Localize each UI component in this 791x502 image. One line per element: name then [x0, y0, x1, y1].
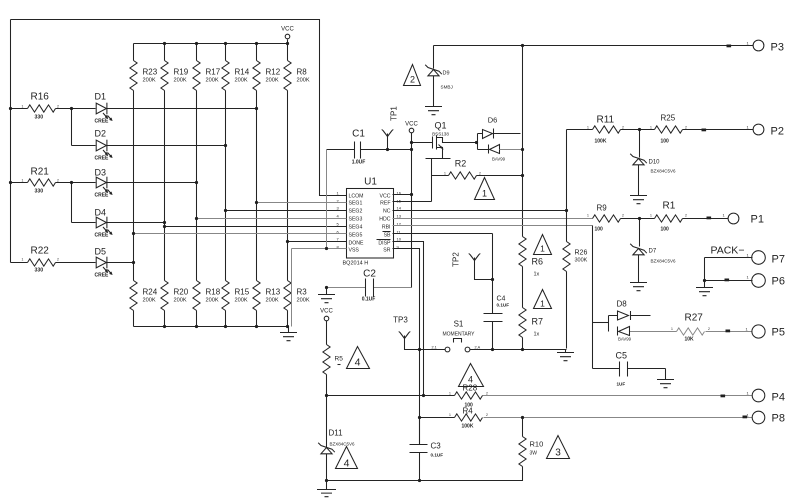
svg-text:3: 3	[337, 206, 340, 211]
svg-text:P6: P6	[772, 276, 785, 288]
svg-text:P3: P3	[771, 42, 784, 54]
svg-text:1: 1	[747, 253, 750, 258]
svg-text:R20: R20	[174, 288, 189, 297]
svg-text:7: 7	[337, 237, 340, 242]
svg-text:330: 330	[35, 189, 44, 195]
svg-text:2: 2	[410, 75, 415, 85]
svg-text:100: 100	[595, 227, 604, 233]
svg-text:R16: R16	[31, 92, 50, 103]
svg-text:LCOM: LCOM	[349, 194, 364, 200]
svg-text:HDC: HDC	[379, 217, 390, 223]
svg-text:200K: 200K	[206, 298, 219, 304]
svg-text:D3: D3	[95, 168, 107, 178]
svg-text:200K: 200K	[143, 78, 156, 84]
svg-text:1: 1	[650, 214, 652, 218]
svg-text:1: 1	[482, 189, 487, 199]
svg-text:C2: C2	[363, 269, 376, 280]
svg-text:R11: R11	[597, 115, 615, 126]
svg-text:4: 4	[344, 458, 350, 470]
svg-text:BAV99: BAV99	[618, 337, 632, 342]
svg-text:VCC: VCC	[380, 194, 391, 200]
svg-text:PACK−: PACK−	[711, 245, 745, 257]
svg-text:SEG4: SEG4	[349, 225, 363, 231]
svg-text:R2: R2	[455, 159, 467, 169]
svg-text:DONE: DONE	[349, 241, 365, 247]
svg-text:CREE: CREE	[95, 119, 110, 125]
svg-text:TP2: TP2	[452, 252, 461, 267]
svg-text:2: 2	[622, 214, 624, 218]
svg-text:13: 13	[397, 214, 402, 219]
svg-text:1: 1	[540, 299, 545, 309]
svg-text:TP1: TP1	[390, 106, 399, 121]
svg-text:R26: R26	[575, 250, 588, 257]
svg-text:D9: D9	[443, 71, 450, 77]
svg-text:BZX84C5V6: BZX84C5V6	[651, 259, 677, 264]
svg-text:R4: R4	[463, 407, 474, 416]
svg-text:200K: 200K	[174, 78, 187, 84]
svg-text:1x: 1x	[534, 272, 540, 278]
svg-text:300K: 300K	[575, 258, 588, 264]
svg-text:R7: R7	[532, 317, 544, 327]
svg-text:R21: R21	[31, 167, 50, 178]
svg-text:200K: 200K	[143, 298, 156, 304]
svg-text:C4: C4	[497, 296, 506, 303]
svg-text:R8: R8	[297, 68, 308, 77]
svg-text:200K: 200K	[174, 298, 187, 304]
svg-text:1: 1	[444, 171, 446, 175]
svg-text:SEG5: SEG5	[349, 233, 363, 239]
svg-text:10K: 10K	[685, 337, 695, 343]
svg-text:SMBJ: SMBJ	[441, 85, 453, 90]
svg-text:14: 14	[397, 206, 402, 211]
svg-text:1: 1	[671, 327, 673, 331]
svg-text:RBI: RBI	[382, 225, 391, 231]
svg-text:200K: 200K	[297, 78, 310, 84]
svg-text:2.A: 2.A	[475, 346, 481, 350]
svg-text:R12: R12	[266, 68, 281, 77]
svg-text:1: 1	[587, 214, 589, 218]
svg-text:R18: R18	[206, 288, 221, 297]
svg-text:1: 1	[449, 391, 451, 395]
svg-text:CREE: CREE	[95, 273, 110, 279]
svg-text:2: 2	[622, 125, 624, 129]
svg-text:D2: D2	[95, 129, 107, 139]
svg-text:DISP: DISP	[378, 241, 391, 247]
svg-text:1x: 1x	[534, 332, 540, 338]
svg-text:1: 1	[747, 413, 750, 418]
svg-text:0.1UF: 0.1UF	[431, 453, 444, 458]
svg-text:2: 2	[57, 258, 59, 262]
svg-text:2: 2	[486, 413, 488, 417]
svg-text:0.1UF: 0.1UF	[497, 303, 510, 308]
svg-text:3W: 3W	[530, 451, 538, 457]
svg-text:SEG2: SEG2	[349, 209, 363, 215]
svg-text:CREE: CREE	[95, 193, 110, 199]
svg-text:R17: R17	[206, 68, 221, 77]
svg-text:CREE: CREE	[95, 233, 110, 239]
svg-text:1: 1	[22, 258, 24, 262]
svg-text:D5: D5	[95, 247, 107, 257]
svg-text:2: 2	[685, 214, 687, 218]
svg-text:1: 1	[449, 413, 451, 417]
svg-text:BSS138: BSS138	[432, 132, 449, 137]
svg-text:10: 10	[397, 237, 402, 242]
svg-text:D7: D7	[649, 249, 657, 255]
svg-text:1: 1	[587, 125, 589, 129]
svg-text:VCC: VCC	[320, 309, 333, 315]
svg-text:2: 2	[479, 171, 481, 175]
svg-text:VSS: VSS	[349, 248, 360, 254]
svg-text:0.1UF: 0.1UF	[362, 297, 376, 303]
svg-text:R27: R27	[685, 313, 704, 324]
svg-text:Q1: Q1	[434, 121, 446, 131]
svg-text:R15: R15	[235, 288, 250, 297]
svg-text:100: 100	[661, 227, 670, 233]
svg-text:R23: R23	[143, 68, 158, 77]
svg-text:100K: 100K	[595, 139, 607, 145]
svg-text:1: 1	[723, 213, 726, 218]
svg-text:1: 1	[540, 244, 545, 254]
svg-text:BZX84C5V6: BZX84C5V6	[330, 442, 356, 447]
svg-text:BAV99: BAV99	[492, 157, 506, 162]
svg-text:R19: R19	[174, 68, 189, 77]
svg-text:100K: 100K	[462, 424, 474, 430]
svg-text:R13: R13	[266, 288, 281, 297]
svg-text:R9: R9	[597, 204, 608, 213]
svg-text:D10: D10	[649, 160, 661, 166]
svg-text:P7: P7	[772, 254, 785, 266]
svg-text:2: 2	[685, 125, 687, 129]
svg-text:1: 1	[337, 191, 340, 196]
svg-text:BZX84C5V6: BZX84C5V6	[651, 169, 677, 174]
svg-text:1: 1	[22, 105, 24, 109]
svg-text:1: 1	[747, 391, 750, 396]
svg-text:5: 5	[337, 222, 340, 227]
svg-text:S1: S1	[454, 320, 464, 329]
svg-text:R25: R25	[661, 114, 676, 123]
svg-text:R5: R5	[335, 356, 344, 363]
svg-text:1.0UF: 1.0UF	[352, 160, 366, 166]
svg-text:200K: 200K	[235, 78, 248, 84]
svg-text:U1: U1	[364, 177, 377, 188]
svg-text:BQ2014 H: BQ2014 H	[343, 261, 369, 267]
svg-text:200K: 200K	[206, 78, 219, 84]
svg-text:P8: P8	[772, 413, 785, 425]
svg-text:VCC: VCC	[405, 122, 418, 128]
svg-text:D11: D11	[329, 429, 344, 438]
svg-text:R1: R1	[663, 201, 676, 212]
svg-text:1: 1	[747, 41, 750, 46]
svg-text:D4: D4	[95, 208, 107, 218]
svg-text:D1: D1	[95, 92, 107, 102]
svg-text:R28: R28	[463, 384, 478, 393]
svg-text:200K: 200K	[297, 298, 310, 304]
svg-text:SB: SB	[384, 233, 391, 239]
svg-text:R22: R22	[31, 246, 50, 257]
svg-text:P2: P2	[771, 126, 784, 138]
svg-text:D8: D8	[617, 300, 628, 309]
svg-text:3: 3	[555, 448, 561, 459]
svg-text:R6: R6	[532, 257, 544, 267]
svg-text:C1: C1	[352, 129, 365, 140]
svg-text:1: 1	[747, 275, 750, 280]
svg-text:200K: 200K	[266, 298, 279, 304]
svg-text:C3: C3	[431, 442, 442, 451]
svg-text:2: 2	[57, 105, 59, 109]
svg-text:SEG1: SEG1	[349, 201, 363, 207]
svg-text:P5: P5	[772, 327, 785, 339]
svg-text:4: 4	[355, 357, 361, 369]
svg-text:2: 2	[486, 391, 488, 395]
svg-text:2.1: 2.1	[432, 346, 437, 350]
svg-text:1: 1	[22, 179, 24, 183]
svg-text:REF: REF	[380, 201, 390, 207]
svg-text:VCC: VCC	[281, 27, 294, 33]
svg-text:1: 1	[746, 327, 749, 332]
svg-text:NC: NC	[383, 209, 391, 215]
svg-text:R10: R10	[530, 440, 544, 449]
svg-text:2: 2	[57, 179, 59, 183]
svg-text:2: 2	[708, 327, 710, 331]
svg-text:1: 1	[747, 125, 750, 130]
svg-text:SR: SR	[383, 248, 390, 254]
svg-text:MOMENTARY: MOMENTARY	[442, 332, 475, 338]
svg-text:1UF: 1UF	[617, 382, 626, 387]
svg-text:R14: R14	[235, 68, 250, 77]
svg-text:200K: 200K	[266, 78, 279, 84]
svg-text:4: 4	[337, 214, 340, 219]
svg-text:TP3: TP3	[393, 316, 408, 325]
svg-text:330: 330	[35, 268, 44, 274]
svg-text:330: 330	[35, 115, 44, 121]
svg-text:D6: D6	[488, 116, 498, 125]
svg-text:1: 1	[650, 125, 652, 129]
svg-text:C5: C5	[616, 351, 628, 361]
svg-text:SEG3: SEG3	[349, 217, 363, 223]
svg-text:100: 100	[661, 139, 670, 145]
svg-text:CREE: CREE	[95, 156, 110, 162]
svg-text:R24: R24	[143, 288, 158, 297]
svg-text:R3: R3	[297, 288, 308, 297]
svg-text:P4: P4	[772, 392, 785, 404]
svg-text:P1: P1	[751, 214, 764, 226]
svg-text:200K: 200K	[235, 298, 248, 304]
